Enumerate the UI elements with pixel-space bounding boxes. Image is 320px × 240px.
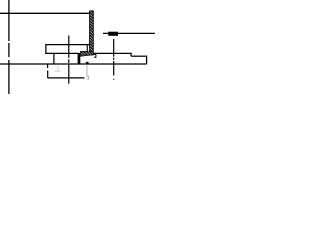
CAD cross-section drawing 155x94: [0, 0, 155, 94]
leader line with solid slug: [103, 32, 155, 36]
hatched vertical bar (thin plate section): [90, 11, 94, 55]
lower top edge: [131, 55, 147, 57]
long bottom line C: [0, 63, 147, 65]
centerline left axis (dash-dot vertical x=9): [8, 0, 10, 94]
lower horizontal shelf: [48, 77, 85, 79]
small joint bracket: [93, 54, 96, 57]
right centerline (dash-dot vertical x=113.8): [113, 39, 115, 80]
flange bottom edge: [45, 52, 78, 54]
inner horizontal above foot: [80, 51, 87, 53]
right plate: top edge: [93, 52, 131, 54]
body left edge: [53, 53, 55, 64]
right end edge: [146, 56, 148, 65]
flange left edge: [45, 44, 47, 54]
inner vertical above foot: [86, 45, 88, 52]
hat centerline (dash-dot vertical x=69): [68, 36, 70, 84]
lower-left step: vertical (with hidden-line gap): [47, 64, 49, 68]
faint inner step left: [55, 64, 61, 71]
horizontal edge line A: [0, 12, 90, 14]
hatched foot: [80, 52, 93, 57]
step down: [130, 53, 132, 56]
left hat part: flange top edge: [45, 44, 89, 46]
filled thin section sliver: [78, 53, 81, 64]
faint inner step right: [87, 64, 89, 79]
small solid blob on line C: [86, 62, 89, 65]
